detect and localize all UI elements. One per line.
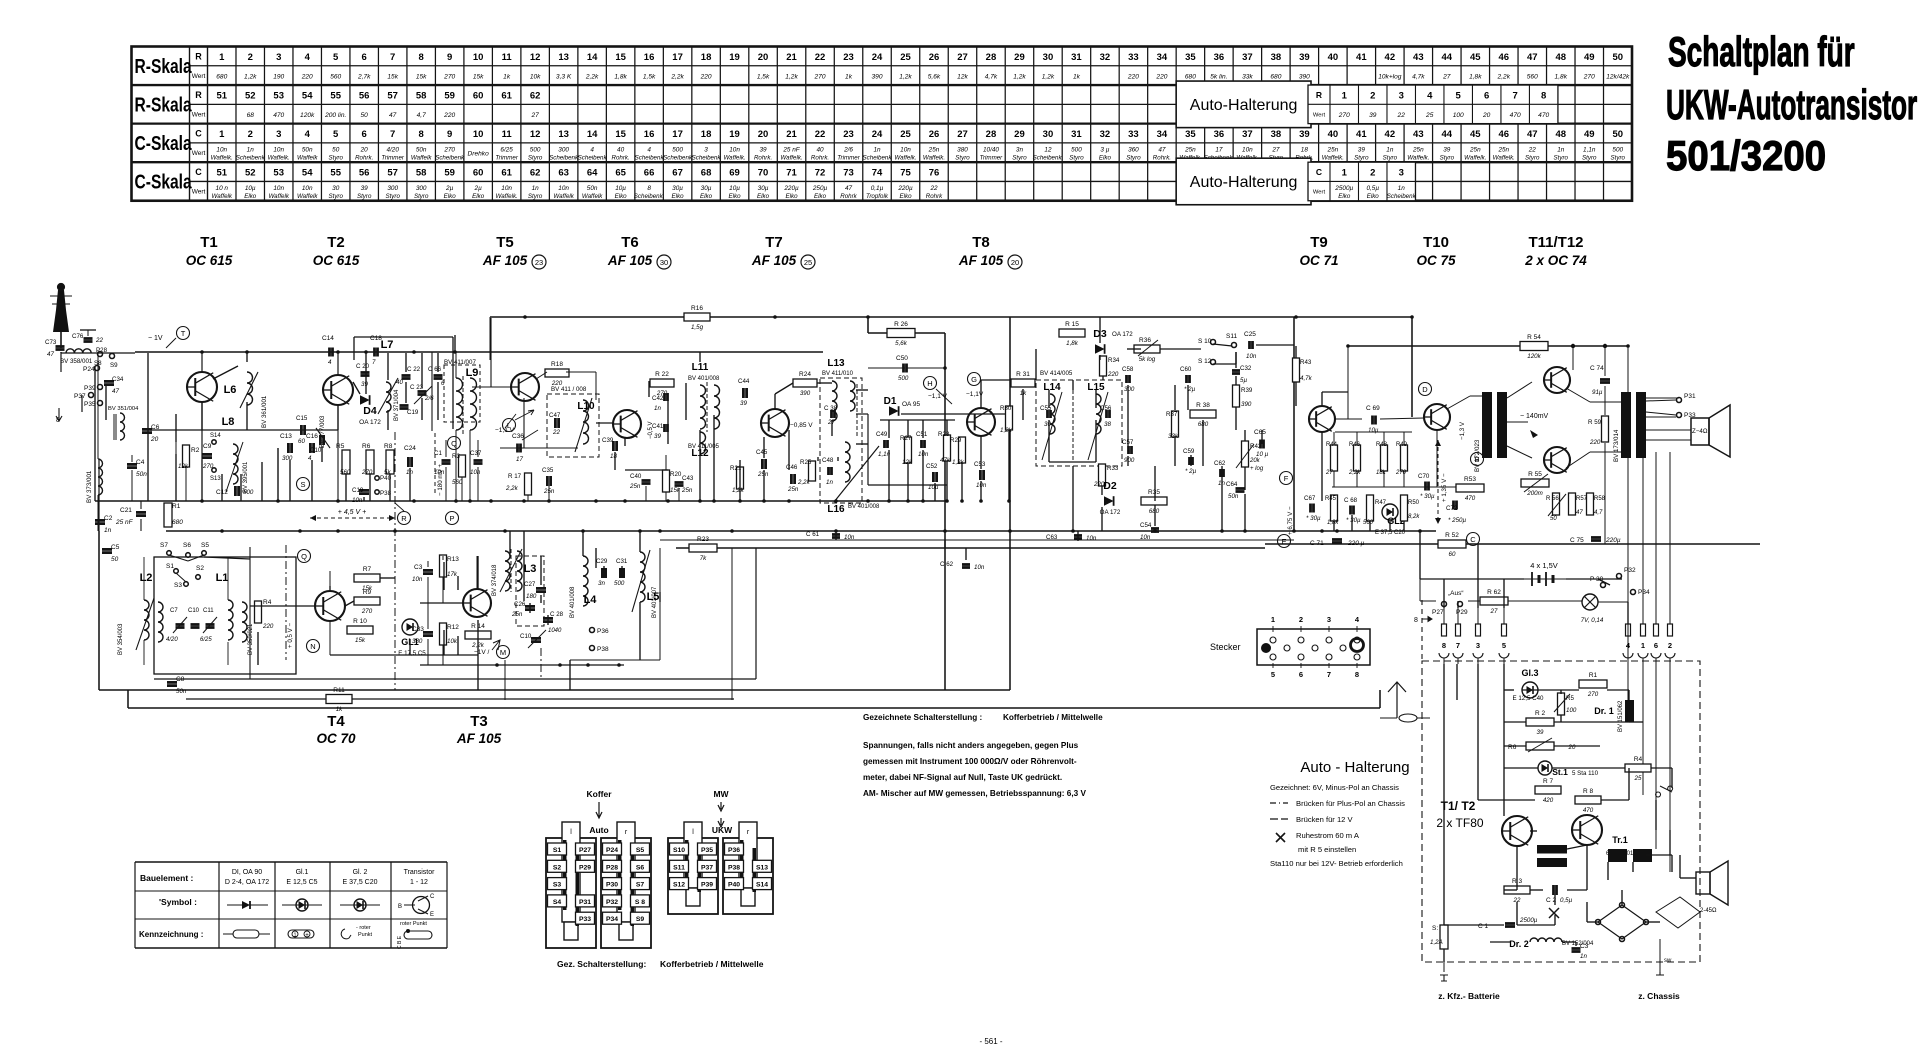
svg-text:C47: C47 [549,412,561,419]
svg-text:R11: R11 [333,687,345,694]
svg-text:3 µ: 3 µ [1100,146,1109,153]
svg-text:L14: L14 [1043,382,1061,393]
svg-text:T6: T6 [621,234,639,251]
svg-text:33k: 33k [1168,433,1179,440]
svg-text:48: 48 [1555,129,1566,140]
svg-text:S2: S2 [553,864,562,871]
svg-text:z. Chassis: z. Chassis [1638,991,1680,1001]
svg-text:500: 500 [530,146,541,153]
svg-text:Elko: Elko [1099,154,1112,161]
svg-text:2,2k: 2,2k [1497,73,1511,80]
svg-text:C54: C54 [1140,522,1152,529]
svg-text:Elko: Elko [700,193,713,200]
svg-text:60: 60 [473,91,484,102]
svg-text:68: 68 [701,168,712,179]
svg-text:55: 55 [330,91,341,102]
svg-text:C2: C2 [104,515,113,522]
svg-text:36: 36 [1214,129,1225,140]
svg-text:91µ: 91µ [1592,389,1603,396]
svg-text:P31: P31 [579,899,591,906]
svg-text:1n: 1n [826,479,833,486]
svg-text:C 62: C 62 [940,561,954,568]
svg-text:10n: 10n [1140,534,1151,541]
svg-text:C3: C3 [414,564,423,571]
svg-text:AF 105: AF 105 [958,253,1004,268]
svg-text:G: G [971,375,977,384]
svg-text:5: 5 [333,129,339,140]
svg-text:C73: C73 [45,339,57,346]
svg-text:C53: C53 [974,461,986,468]
svg-text:roter Punkt: roter Punkt [400,921,427,927]
svg-text:39: 39 [1537,729,1544,736]
svg-text:4/20: 4/20 [166,637,178,643]
svg-text:R6: R6 [362,443,371,450]
svg-text:39: 39 [654,433,661,440]
svg-text:39: 39 [1299,52,1310,63]
svg-text:10n: 10n [844,534,855,541]
svg-text:C70: C70 [1418,473,1430,480]
svg-text:P40: P40 [728,882,740,889]
svg-text:4,7k: 4,7k [1412,73,1425,80]
svg-text:S5: S5 [201,542,209,549]
svg-text:43: 43 [1413,52,1424,63]
svg-text:2µ: 2µ [445,185,454,192]
svg-text:58: 58 [416,91,427,102]
svg-text:S6: S6 [183,542,191,549]
svg-text:3: 3 [1399,91,1404,102]
svg-text:C: C [195,167,202,177]
svg-text:+: + [305,933,309,939]
svg-text:E 17,5 C5: E 17,5 C5 [398,650,426,657]
svg-text:46: 46 [1499,52,1510,63]
svg-text:C13: C13 [280,433,292,440]
svg-text:270: 270 [1583,73,1595,80]
svg-text:20: 20 [1482,112,1491,119]
svg-text:Styro: Styro [1440,154,1455,161]
svg-text:10n: 10n [470,469,481,476]
svg-text:P34: P34 [606,916,618,923]
svg-text:C4: C4 [136,459,145,466]
svg-text:7V, 0,14: 7V, 0,14 [1581,617,1604,624]
svg-text:P27: P27 [579,847,591,854]
svg-text:P36: P36 [597,628,609,635]
svg-text:38: 38 [1271,129,1282,140]
svg-text:OC 71: OC 71 [1299,253,1338,268]
svg-text:70: 70 [758,168,769,179]
svg-text:10n: 10n [273,146,284,153]
svg-text:L8: L8 [222,416,235,428]
svg-text:14: 14 [587,129,598,140]
svg-text:R 10: R 10 [353,618,367,625]
svg-text:C14: C14 [322,335,334,342]
svg-text:Wert: Wert [192,188,206,195]
svg-text:5,6k: 5,6k [928,73,941,80]
svg-text:220: 220 [1589,439,1601,446]
svg-text:23: 23 [843,129,854,140]
svg-text:Drehko: Drehko [468,150,490,157]
svg-text:C1: C1 [434,450,442,457]
svg-text:74: 74 [872,168,883,179]
svg-text:10n: 10n [900,146,911,153]
svg-text:680: 680 [1149,508,1160,515]
svg-text:OC 75: OC 75 [1416,253,1456,268]
svg-text:3: 3 [276,129,281,140]
svg-text:4,7k: 4,7k [1300,375,1313,382]
svg-text:R29: R29 [950,437,962,444]
svg-text:Rohrk: Rohrk [840,193,857,200]
svg-text:Styro: Styro [385,193,400,200]
svg-text:39: 39 [1443,146,1451,153]
svg-text:Styro: Styro [528,193,543,200]
svg-text:9: 9 [447,129,452,140]
svg-text:C: C [195,129,202,139]
svg-text:C5: C5 [111,544,120,551]
svg-text:2,2k: 2,2k [505,485,519,492]
svg-text:2500µ: 2500µ [1334,185,1353,192]
svg-text:C-Skala: C-Skala [135,171,193,193]
svg-text:10 n: 10 n [216,185,229,192]
svg-text:30: 30 [1043,129,1054,140]
svg-text:P35: P35 [701,847,713,854]
svg-text:R 62: R 62 [1487,589,1501,596]
svg-text:54: 54 [302,168,313,179]
svg-text:1k: 1k [503,73,511,80]
svg-text:220: 220 [301,73,313,80]
svg-text:190: 190 [273,73,284,80]
svg-text:25n: 25n [1327,146,1339,153]
svg-text:8: 8 [1442,641,1446,650]
svg-text:560: 560 [452,479,463,486]
svg-text:OA 172: OA 172 [1100,509,1121,516]
svg-text:10k+log: 10k+log [1378,73,1402,80]
svg-text:OA 172: OA 172 [359,419,381,426]
svg-text:Elko: Elko [786,193,799,200]
svg-text:C41: C41 [652,423,664,430]
svg-text:10: 10 [473,129,484,140]
svg-text:25n: 25n [928,146,940,153]
svg-text:S9: S9 [110,362,118,369]
svg-text:40: 40 [617,146,625,153]
svg-text:390: 390 [872,73,883,80]
svg-text:L16: L16 [827,504,845,515]
svg-text:Waffelk: Waffelk [553,193,574,200]
svg-text:OA 172: OA 172 [1112,331,1133,338]
svg-text:1,5k: 1,5k [643,73,656,80]
svg-text:18: 18 [701,129,712,140]
svg-text:1,2A: 1,2A [1430,939,1443,946]
svg-text:BV 354/003: BV 354/003 [118,623,124,655]
svg-text:61: 61 [501,168,512,179]
svg-text:34: 34 [1157,52,1168,63]
svg-text:49: 49 [1584,129,1595,140]
svg-text:S10: S10 [673,847,685,854]
svg-text:200m: 200m [1526,490,1542,497]
svg-text:220 µ: 220 µ [1347,540,1365,547]
svg-text:R 54: R 54 [1527,334,1541,341]
svg-text:47: 47 [389,112,397,119]
svg-text:5: 5 [1456,91,1462,102]
svg-text:Rohrk.: Rohrk. [1153,154,1171,161]
svg-text:1n: 1n [532,185,540,192]
svg-text:L2: L2 [140,572,153,584]
svg-text:Scheibenk: Scheibenk [692,154,722,161]
svg-text:30: 30 [332,185,340,192]
svg-text:4: 4 [647,146,651,153]
svg-text:R36: R36 [1139,337,1151,344]
svg-text:35: 35 [1185,129,1196,140]
svg-text:4: 4 [1427,91,1433,102]
svg-text:Dr. 2: Dr. 2 [1509,939,1529,949]
svg-text:3n: 3n [598,580,605,587]
svg-text:900: 900 [1124,457,1135,464]
svg-text:P32: P32 [606,899,618,906]
svg-text:AM- Mischer auf MW gemessen: AM- Mischer auf MW gemessen, Betriebsspa… [863,789,1086,798]
svg-text:S 10: S 10 [1198,338,1212,345]
svg-text:1,8k: 1,8k [1469,73,1482,80]
svg-text:27: 27 [1325,470,1333,476]
svg-text:1040: 1040 [548,628,562,634]
svg-text:53: 53 [273,91,284,102]
svg-text:Tropfolk: Tropfolk [866,193,889,200]
svg-text:8: 8 [647,185,651,192]
svg-text:C15: C15 [296,415,308,422]
svg-text:12: 12 [530,52,541,63]
svg-text:25n: 25n [1412,146,1424,153]
svg-text:Gl.1: Gl.1 [296,869,309,876]
svg-text:Styro: Styro [955,154,970,161]
svg-text:Waffelk.: Waffelk. [211,154,233,161]
svg-text:R45: R45 [1325,496,1337,502]
svg-text:17k: 17k [447,571,458,578]
svg-text:C31: C31 [616,558,628,565]
svg-text:S11: S11 [1226,333,1237,340]
svg-text:C 66: C 66 [428,366,442,373]
svg-text:Styro: Styro [1012,154,1027,161]
svg-text:2,2k: 2,2k [585,73,599,80]
svg-text:390: 390 [1241,401,1252,408]
svg-text:47k: 47k [940,457,951,464]
svg-text:26: 26 [929,52,940,63]
svg-text:22: 22 [1528,146,1537,153]
svg-text:24: 24 [872,129,883,140]
svg-text:Waffelk.: Waffelk. [1407,154,1429,161]
svg-text:C58: C58 [1122,366,1134,373]
svg-text:C64: C64 [1226,481,1238,488]
svg-text:C: C [1470,535,1476,544]
svg-text:1: 1 [1342,168,1348,179]
svg-text:T3: T3 [470,713,488,730]
svg-text:R13: R13 [447,556,459,563]
svg-text:BV 361/001: BV 361/001 [261,395,268,428]
svg-text:22: 22 [95,337,103,344]
svg-text:2: 2 [1370,168,1375,179]
svg-text:500: 500 [672,146,683,153]
svg-text:- roter: - roter [356,925,371,931]
svg-text:R39: R39 [1241,387,1253,394]
svg-text:P34: P34 [1638,589,1650,596]
svg-text:* 30µ: * 30µ [1306,515,1321,522]
svg-text:P37: P37 [74,393,86,400]
svg-text:680: 680 [1185,73,1196,80]
svg-text:R 7: R 7 [1543,778,1554,785]
svg-text:10µ: 10µ [729,185,740,192]
svg-text:BV 358/001: BV 358/001 [60,358,93,365]
svg-text:4,7k: 4,7k [985,73,998,80]
svg-text:Gl.3: Gl.3 [1521,668,1538,678]
svg-text:OA 95: OA 95 [902,401,920,408]
svg-text:71: 71 [786,168,797,179]
svg-text:T9: T9 [1310,234,1328,251]
svg-text:S4: S4 [553,899,562,906]
svg-text:OC 615: OC 615 [186,253,233,268]
svg-text:Brücken für 12 V: Brücken für 12 V [1296,815,1353,824]
svg-text:10k: 10k [530,73,541,80]
svg-text:R 22: R 22 [655,371,669,378]
svg-text:D4: D4 [363,405,377,417]
svg-text:560: 560 [330,73,341,80]
svg-text:22: 22 [1397,112,1406,119]
svg-text:Waffelk.: Waffelk. [1322,154,1344,161]
svg-text:C50: C50 [896,355,908,362]
svg-text:21: 21 [786,52,797,63]
svg-text:12k: 12k [957,73,968,80]
svg-text:Elko: Elko [672,193,685,200]
svg-text:29: 29 [1014,129,1025,140]
svg-text:* 2µ: * 2µ [1184,386,1196,393]
svg-text:M: M [500,648,506,657]
svg-text:Waffelk.: Waffelk. [1464,154,1486,161]
svg-text:Dr. 1: Dr. 1 [1594,706,1614,716]
svg-text:S9: S9 [636,916,645,923]
svg-text:H: H [927,379,932,388]
svg-text:Scheibenk: Scheibenk [236,154,266,161]
svg-text:0,5µ: 0,5µ [1560,897,1573,904]
svg-text:C62: C62 [1214,460,1226,467]
svg-text:60: 60 [298,438,305,445]
svg-text:gemessen mit Instrument 100: gemessen mit Instrument 100 000Ω/V oder … [863,757,1077,766]
svg-text:P28: P28 [606,864,618,871]
svg-text:10/40: 10/40 [983,146,999,153]
svg-text:R 52: R 52 [1445,532,1459,539]
svg-text:39: 39 [361,185,369,192]
svg-text:R 26: R 26 [894,321,908,328]
svg-text:S2: S2 [196,565,204,572]
svg-text:B: B [1474,455,1479,464]
svg-text:62: 62 [530,91,541,102]
svg-text:4,7: 4,7 [1594,510,1603,516]
svg-text:Schaltplan für: Schaltplan für [1668,28,1855,75]
svg-text:40: 40 [1328,129,1339,140]
svg-text:17: 17 [1215,146,1223,153]
svg-text:C60: C60 [1180,366,1192,373]
svg-text:BV 151/062: BV 151/062 [1618,700,1624,732]
svg-text:Elko: Elko [757,193,770,200]
svg-text:R43: R43 [1300,359,1312,366]
svg-text:390: 390 [1299,73,1310,80]
svg-text:C29: C29 [596,558,608,565]
svg-text:C 22: C 22 [407,366,421,373]
svg-text:2/6: 2/6 [843,146,853,153]
svg-text:C10: C10 [520,633,532,640]
svg-text:R 56: R 56 [1546,496,1559,502]
svg-text:17: 17 [672,129,683,140]
svg-text:D2: D2 [1103,480,1117,492]
svg-text:1k: 1k [1073,73,1081,80]
svg-text:21: 21 [786,129,797,140]
svg-text:2: 2 [1370,91,1375,102]
svg-text:5: 5 [1502,641,1506,650]
svg-text:C33: C33 [412,626,424,633]
svg-text:P24: P24 [83,366,95,373]
svg-text:27: 27 [530,112,539,119]
svg-text:10n: 10n [302,185,313,192]
svg-text:P39: P39 [701,882,713,889]
svg-text:58: 58 [416,168,427,179]
svg-text:24: 24 [872,52,883,63]
svg-text:S12: S12 [673,882,685,889]
svg-text:25 nF: 25 nF [782,146,800,153]
svg-text:C56: C56 [1100,405,1112,412]
svg-text:1: 1 [294,933,297,939]
svg-text:68: 68 [247,112,255,119]
svg-text:470: 470 [273,112,284,119]
svg-text:19: 19 [729,129,740,140]
svg-text:T11/T12: T11/T12 [1528,234,1583,251]
svg-text:S13: S13 [210,476,221,482]
svg-text:1,1n: 1,1n [1583,146,1596,153]
svg-text:15: 15 [615,129,626,140]
svg-text:300: 300 [387,185,398,192]
svg-text:12: 12 [530,129,541,140]
svg-text:C19: C19 [407,409,419,416]
svg-text:30µ: 30µ [701,185,712,192]
svg-text:30µ: 30µ [672,185,683,192]
svg-text:10: 10 [473,52,484,63]
svg-text:Rohrk.: Rohrk. [811,154,829,161]
svg-text:Styro: Styro [1354,154,1369,161]
svg-text:AF 105: AF 105 [751,253,797,268]
svg-text:50: 50 [1612,129,1623,140]
svg-text:10µ: 10µ [1368,427,1379,434]
svg-text:+ 1,35 V −: + 1,35 V − [1441,473,1448,502]
svg-text:Waffelk.: Waffelk. [894,154,916,161]
svg-text:1,5k: 1,5k [757,73,770,80]
svg-text:1,8k: 1,8k [1066,340,1079,347]
svg-text:32: 32 [1100,52,1111,63]
svg-text:1,8k: 1,8k [614,73,627,80]
svg-text:47: 47 [47,351,54,358]
svg-text:OC 70: OC 70 [316,731,356,746]
svg-text:BV 350/021: BV 350/021 [248,623,254,655]
svg-text:51: 51 [216,168,227,179]
svg-text:27: 27 [957,129,968,140]
svg-text:14: 14 [587,52,598,63]
svg-text:C45: C45 [756,449,768,456]
svg-text:20: 20 [1568,744,1576,751]
svg-text:R46: R46 [1349,442,1361,448]
svg-text:3,3 K: 3,3 K [556,73,572,80]
svg-text:Gez. Schalterstellung:: Gez. Schalterstellung: [557,959,646,969]
svg-text:S11: S11 [673,864,685,871]
svg-text:20: 20 [758,52,769,63]
svg-text:12k/42k: 12k/42k [1606,73,1630,80]
svg-text:BV 411/005: BV 411/005 [688,444,720,450]
svg-text:250µ: 250µ [812,185,828,192]
svg-text:Punkt: Punkt [358,932,373,938]
svg-text:39: 39 [1299,129,1310,140]
svg-text:C 38: C 38 [824,405,838,412]
svg-text:4,7: 4,7 [417,112,426,119]
